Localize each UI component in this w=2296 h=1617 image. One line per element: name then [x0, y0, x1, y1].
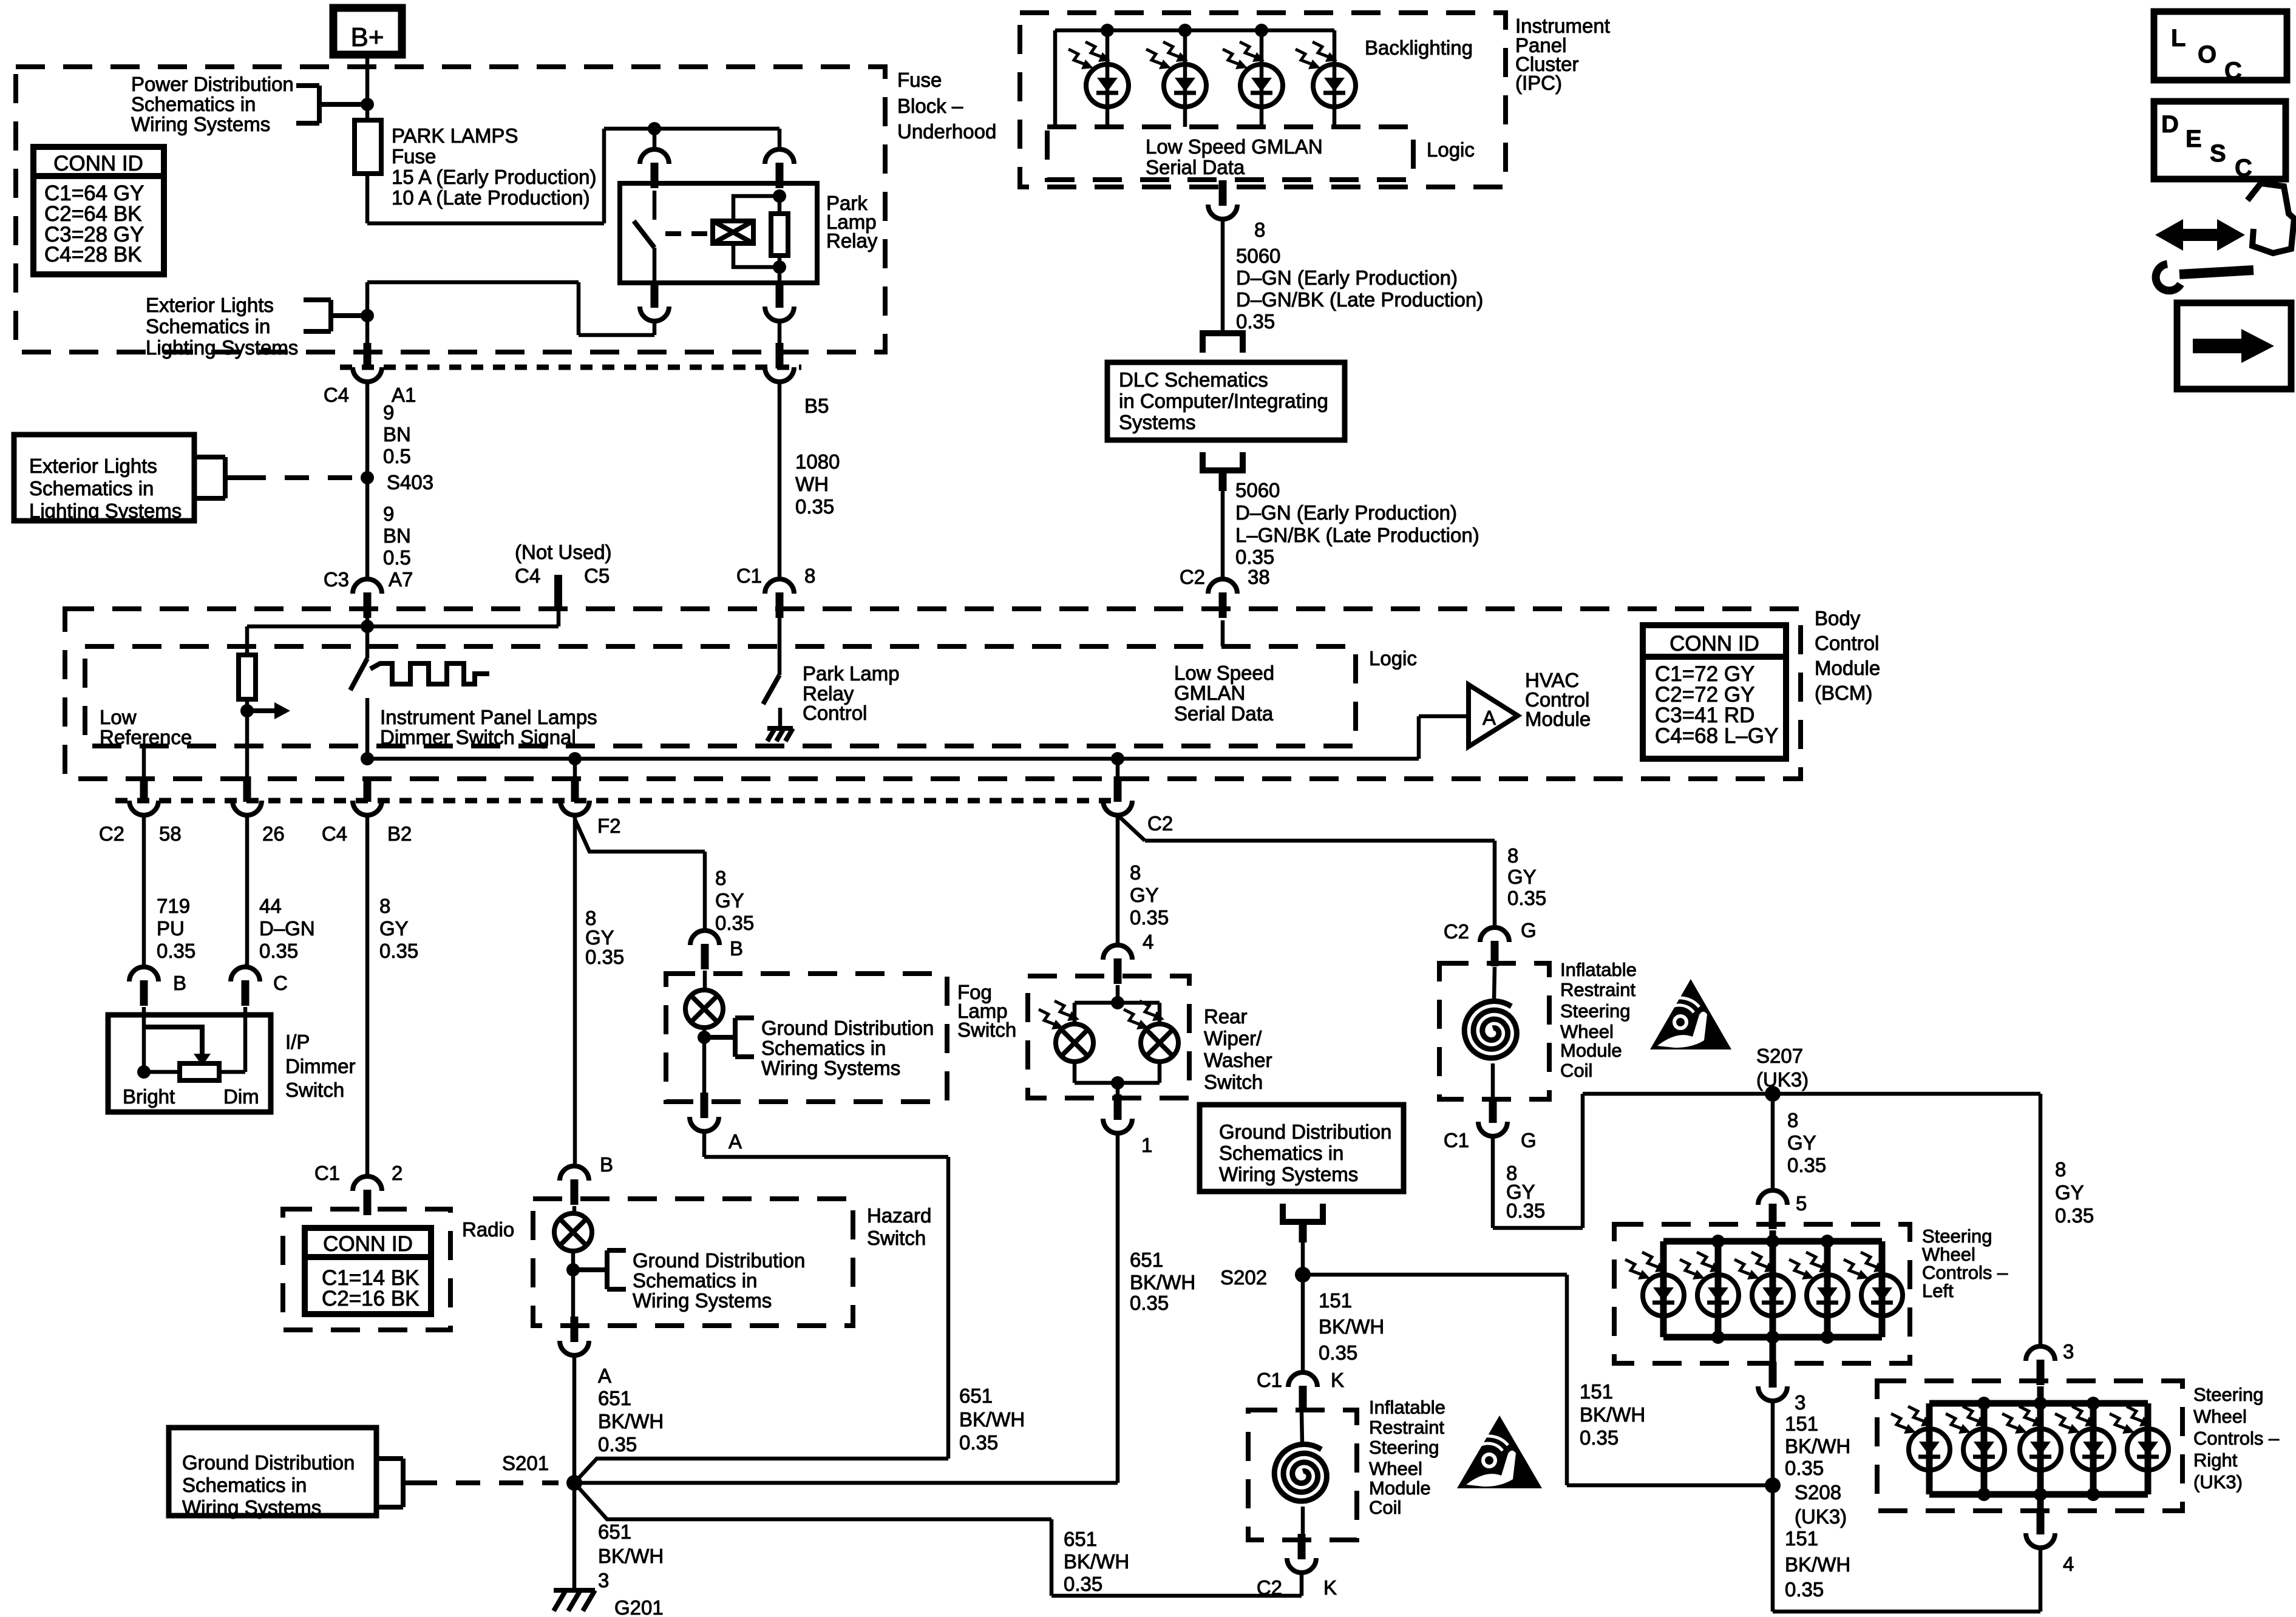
warning triangle airbag upper — [1650, 979, 1731, 1049]
wire hazard A to S201 — [572, 1355, 577, 1483]
svg-text:Steering: Steering — [1560, 1000, 1630, 1022]
wire DLC to BCM — [1221, 491, 1225, 579]
svg-text:C5: C5 — [584, 564, 610, 587]
warning triangle airbag lower — [1457, 1415, 1542, 1488]
svg-text:Relay: Relay — [826, 229, 878, 252]
connector dimmer C — [231, 967, 260, 981]
dotted connector face below fuse block — [340, 365, 801, 370]
svg-text:15 A (Early Production): 15 A (Early Production) — [392, 166, 597, 188]
connector table CONN ID fuse block — [33, 147, 164, 274]
svg-text:Fuse: Fuse — [897, 69, 942, 91]
wire relay out left — [653, 321, 657, 335]
svg-text:C1: C1 — [314, 1162, 340, 1184]
svg-text:Ground Distribution: Ground Distribution — [633, 1249, 805, 1272]
hazard switch dashed box — [533, 1199, 853, 1326]
svg-text:BN: BN — [383, 524, 411, 547]
wire bus drop F2 — [573, 759, 577, 778]
bracket to S403 — [223, 457, 228, 498]
relay actuation dashes — [665, 231, 713, 236]
svg-text:Wiring Systems: Wiring Systems — [761, 1057, 900, 1079]
svg-text:Switch: Switch — [1204, 1071, 1263, 1093]
svg-text:9: 9 — [383, 503, 394, 525]
svg-text:719: 719 — [157, 895, 190, 917]
svg-text:Power Distribution: Power Distribution — [131, 73, 294, 95]
svg-text:Restraint: Restraint — [1560, 979, 1635, 1000]
svg-text:C2: C2 — [99, 822, 124, 845]
wire IPC to DLC — [1221, 219, 1225, 333]
svg-text:BK/WH: BK/WH — [598, 1410, 664, 1432]
svg-text:Module: Module — [1525, 708, 1591, 730]
LED backlight 1 — [1106, 30, 1110, 127]
svg-text:Exterior Lights: Exterior Lights — [146, 294, 274, 316]
wire S207 to SWC right — [2039, 1094, 2043, 1345]
svg-text:0.35: 0.35 — [795, 495, 834, 518]
node splice S403 — [361, 471, 374, 484]
svg-text:S202: S202 — [1220, 1266, 1267, 1289]
wire C2 to wiper 4 — [1116, 815, 1120, 945]
relay switch lower wire — [653, 248, 657, 283]
svg-text:C: C — [2224, 58, 2242, 84]
wire fuse to relay top — [367, 222, 604, 226]
connector C2 GMLAN out — [1114, 776, 1122, 802]
BCM dimmer switch blade — [350, 659, 367, 690]
svg-text:0.5: 0.5 — [383, 546, 411, 569]
BCM internal bus — [367, 757, 1419, 761]
svg-text:Switch: Switch — [957, 1019, 1016, 1041]
wire S207 bus — [1583, 1092, 2040, 1096]
svg-text:(UK3): (UK3) — [1795, 1505, 1847, 1528]
svg-text:Radio: Radio — [462, 1218, 514, 1241]
wire S207 to SWC left — [1771, 1094, 1775, 1190]
node relay coil top — [773, 189, 786, 203]
coil spiral lower — [1274, 1444, 1326, 1501]
box DLC Schematics — [1107, 362, 1345, 440]
connector coil C1 G — [1489, 1097, 1497, 1123]
svg-text:651: 651 — [959, 1385, 993, 1407]
icon DESC box — [2154, 101, 2286, 179]
wire F2 branch to fog — [575, 819, 705, 852]
BCM relay control ground stub — [778, 708, 783, 727]
svg-text:Underhood: Underhood — [897, 120, 996, 143]
svg-text:0.35: 0.35 — [259, 940, 298, 962]
svg-text:S: S — [2210, 140, 2226, 167]
svg-text:Schematics in: Schematics in — [29, 477, 154, 500]
svg-text:BK/WH: BK/WH — [1580, 1403, 1645, 1426]
node splice S202 — [1295, 1267, 1311, 1283]
svg-text:5060: 5060 — [1235, 479, 1280, 501]
svg-text:3: 3 — [598, 1569, 609, 1592]
SWC left bottom bus — [1663, 1334, 1882, 1341]
wire S201 to ground — [572, 1483, 577, 1589]
svg-text:S207: S207 — [1756, 1045, 1803, 1067]
SWC right bus dots — [1977, 1397, 1991, 1410]
svg-text:5: 5 — [1796, 1192, 1807, 1215]
svg-text:Ground Distribution: Ground Distribution — [182, 1451, 355, 1474]
lamp hazard indicator — [554, 1213, 592, 1251]
svg-text:Module: Module — [1815, 657, 1880, 679]
wire hazard B — [560, 1166, 589, 1181]
svg-text:0.35: 0.35 — [598, 1433, 637, 1456]
svg-text:D–GN/BK (Late Production): D–GN/BK (Late Production) — [1236, 288, 1483, 311]
svg-text:8: 8 — [1507, 844, 1518, 867]
svg-text:I/P: I/P — [285, 1031, 310, 1053]
relay resistor — [778, 191, 782, 214]
svg-text:D–GN: D–GN — [259, 917, 315, 940]
connector C4 pin B2 — [364, 776, 372, 802]
ground G201 — [554, 1588, 595, 1593]
icon vehicle arrow — [2155, 219, 2245, 251]
svg-text:Fuse: Fuse — [392, 145, 436, 168]
connector IPC serial out — [1219, 180, 1227, 206]
IPC backlight bus — [1055, 29, 1334, 33]
svg-text:0.35: 0.35 — [715, 912, 754, 934]
svg-text:B+: B+ — [350, 22, 384, 52]
connector C2 pin 58 — [140, 776, 148, 802]
coil lower wire — [1302, 1412, 1302, 1443]
svg-text:0.35: 0.35 — [1507, 887, 1546, 909]
fuse block - underhood dashed box — [16, 67, 885, 352]
svg-text:GY: GY — [2055, 1181, 2084, 1204]
BCM dimmer squiggle — [370, 663, 489, 684]
svg-text:(IPC): (IPC) — [1515, 72, 1562, 94]
svg-text:WH: WH — [795, 473, 829, 495]
connector C3 pin A7 — [353, 579, 382, 594]
SWC right LEDs — [1926, 1403, 1933, 1494]
svg-text:38: 38 — [1248, 566, 1270, 588]
wire 26 to dimmer C — [245, 815, 250, 967]
dimmer potentiometer — [180, 1063, 219, 1080]
svg-text:0.5: 0.5 — [383, 445, 411, 467]
svg-text:4: 4 — [2063, 1553, 2074, 1575]
svg-text:A: A — [729, 1130, 742, 1153]
connector relay coil out — [776, 282, 784, 308]
radio dashed box — [283, 1209, 450, 1330]
svg-text:151: 151 — [1319, 1289, 1352, 1312]
dimmer B leg — [142, 1007, 146, 1072]
svg-text:0.35: 0.35 — [1580, 1426, 1618, 1449]
svg-text:Bright: Bright — [123, 1085, 175, 1108]
svg-text:C4=28 BK: C4=28 BK — [44, 243, 142, 266]
svg-text:0.35: 0.35 — [2055, 1204, 2094, 1227]
node dimmer signal junction — [361, 620, 374, 633]
svg-text:651: 651 — [1130, 1249, 1163, 1271]
node IPC bus dot 1 — [1101, 24, 1114, 37]
wire bus to HVAC — [1417, 716, 1421, 759]
fog lamp wire bottom — [702, 1028, 707, 1093]
svg-text:5060: 5060 — [1236, 245, 1280, 267]
svg-text:Schematics in: Schematics in — [131, 93, 256, 115]
steering wheel controls right dashed box — [1877, 1381, 2182, 1511]
svg-text:C4: C4 — [322, 822, 347, 845]
svg-text:Switch: Switch — [867, 1227, 926, 1249]
svg-text:10 A (Late Production): 10 A (Late Production) — [392, 186, 590, 209]
svg-text:Park Lamp: Park Lamp — [803, 662, 900, 685]
svg-text:Logic: Logic — [1427, 138, 1475, 161]
wire S201 to fog loop — [574, 1459, 948, 1483]
svg-text:0.35: 0.35 — [1319, 1341, 1357, 1364]
bracket hazard ground distribution — [605, 1250, 610, 1289]
svg-text:Steering: Steering — [1369, 1437, 1439, 1458]
svg-text:Restraint: Restraint — [1369, 1417, 1444, 1438]
wire wiper out — [1116, 1083, 1120, 1094]
svg-text:Wiring Systems: Wiring Systems — [131, 113, 270, 135]
BCM wiper arrow — [247, 708, 274, 713]
svg-text:0.35: 0.35 — [1235, 546, 1274, 568]
svg-text:C: C — [273, 972, 288, 994]
wire relay coil drop — [778, 129, 782, 149]
svg-text:F2: F2 — [597, 815, 621, 837]
box Exterior Lights schematics — [14, 435, 194, 521]
node relay coil bottom — [773, 260, 786, 274]
node fog ground junction — [698, 1031, 711, 1044]
svg-text:Coil: Coil — [1369, 1497, 1401, 1518]
connector SWC left 5 — [1758, 1190, 1787, 1205]
svg-text:1080: 1080 — [795, 450, 840, 473]
connector wiper 4 — [1103, 945, 1132, 960]
connector table CONN ID BCM — [1643, 625, 1786, 759]
svg-text:K: K — [1323, 1576, 1337, 1599]
connector fog A — [701, 1093, 708, 1118]
svg-text:C4: C4 — [324, 384, 349, 406]
box Ground Distribution middle — [1200, 1105, 1404, 1192]
connector table CONN ID radio — [305, 1228, 431, 1314]
svg-text:Hazard: Hazard — [867, 1204, 931, 1227]
svg-text:L: L — [2171, 25, 2186, 52]
svg-text:Wiring Systems: Wiring Systems — [1219, 1163, 1358, 1185]
svg-text:PU: PU — [157, 917, 185, 940]
svg-text:Schematics in: Schematics in — [182, 1474, 307, 1496]
node splice S208 — [1765, 1477, 1781, 1493]
relay switch contact wire — [653, 191, 657, 220]
wire S208 to SWC right 4 — [1771, 1485, 1775, 1612]
node relay feed junction — [648, 122, 661, 135]
wire coil to S207 — [1491, 1136, 1495, 1228]
svg-text:Systems: Systems — [1119, 411, 1196, 433]
svg-text:151: 151 — [1785, 1527, 1818, 1550]
svg-text:Backlighting: Backlighting — [1365, 36, 1473, 59]
wire SWC left to S208 — [1771, 1401, 1775, 1485]
svg-text:651: 651 — [598, 1387, 631, 1409]
wire C3 into BCM — [365, 611, 370, 626]
svg-text:2: 2 — [392, 1162, 402, 1184]
svg-text:C: C — [2235, 155, 2252, 181]
svg-text:BK/WH: BK/WH — [1785, 1435, 1850, 1457]
svg-text:B5: B5 — [804, 395, 829, 417]
svg-text:Wiper/: Wiper/ — [1204, 1027, 1262, 1049]
svg-text:D–GN (Early Production): D–GN (Early Production) — [1236, 266, 1458, 289]
svg-text:C1: C1 — [736, 564, 762, 587]
svg-text:Low Speed: Low Speed — [1174, 662, 1274, 684]
svg-text:Control: Control — [1815, 632, 1879, 654]
LED backlight 2 — [1183, 30, 1187, 127]
BCM dimmer switch wire — [365, 626, 370, 659]
svg-text:0.35: 0.35 — [157, 940, 195, 962]
svg-text:K: K — [1331, 1369, 1344, 1391]
svg-text:C4=68 L–GY: C4=68 L–GY — [1655, 724, 1778, 748]
inflatable restraint coil lower dashed box — [1248, 1410, 1357, 1540]
svg-text:8: 8 — [1254, 219, 1265, 241]
bracket fog ground distribution — [733, 1018, 738, 1057]
icon LOC box — [2154, 12, 2287, 80]
node bus dot B2 — [361, 752, 374, 765]
hazard lamp wire bottom — [571, 1251, 576, 1317]
BCM resistor low reference — [245, 626, 250, 655]
connector coil C2 G — [1480, 927, 1509, 942]
svg-text:8: 8 — [715, 867, 726, 889]
svg-text:0.35: 0.35 — [1130, 906, 1169, 929]
wire C5 into BCM — [557, 610, 561, 626]
svg-text:Exterior Lights: Exterior Lights — [29, 455, 157, 477]
connector SWC left 3 — [1769, 1362, 1777, 1388]
svg-text:CONN ID: CONN ID — [323, 1232, 413, 1256]
svg-text:Controls –: Controls – — [2193, 1428, 2280, 1449]
hazard lamp wire top — [572, 1206, 577, 1213]
connector F2 — [571, 776, 579, 802]
svg-text:Ground Distribution: Ground Distribution — [1219, 1120, 1391, 1143]
bracket S201 ground distribution — [401, 1459, 406, 1507]
svg-text:BN: BN — [383, 423, 411, 446]
svg-text:(UK3): (UK3) — [2193, 1471, 2243, 1493]
SWC right bottom bus — [1929, 1491, 2148, 1498]
SWC left bus dots — [1711, 1235, 1725, 1248]
wiper lamp bus bottom — [1075, 1081, 1160, 1085]
svg-text:GY: GY — [1130, 884, 1159, 906]
fuse F PARK LAMPS — [355, 120, 381, 174]
power feed B+ symbol — [333, 8, 402, 55]
connector pin 26 — [243, 776, 251, 802]
svg-text:Wheel: Wheel — [1369, 1458, 1422, 1479]
svg-text:0.35: 0.35 — [1785, 1457, 1824, 1479]
svg-text:0.35: 0.35 — [1787, 1154, 1826, 1176]
dimmer wiper loop — [144, 1027, 202, 1054]
svg-text:0.35: 0.35 — [1785, 1578, 1824, 1601]
icon wrench — [2179, 270, 2254, 274]
connector radio C1 2 — [353, 1176, 382, 1191]
wire S201 to wiper return — [574, 1481, 1118, 1485]
svg-text:(BCM): (BCM) — [1815, 682, 1872, 704]
svg-text:44: 44 — [259, 895, 282, 917]
svg-text:C1: C1 — [1257, 1369, 1282, 1391]
svg-text:A: A — [598, 1364, 611, 1387]
svg-text:Inflatable: Inflatable — [1560, 959, 1637, 980]
svg-text:Dimmer Switch Signal: Dimmer Switch Signal — [380, 726, 576, 748]
IP dimmer switch box — [108, 1015, 271, 1112]
node bus dot C2 — [1111, 752, 1124, 765]
svg-text:GMLAN: GMLAN — [1174, 682, 1245, 704]
svg-text:S208: S208 — [1795, 1481, 1841, 1503]
svg-text:Left: Left — [1922, 1280, 1954, 1301]
svg-text:C4: C4 — [515, 564, 540, 587]
svg-text:4: 4 — [1143, 931, 1153, 953]
svg-text:Right: Right — [2193, 1449, 2238, 1471]
lamp fog indicator — [685, 990, 723, 1028]
wiper lamp bus top — [1116, 985, 1120, 1003]
svg-text:D–GN (Early Production): D–GN (Early Production) — [1235, 501, 1457, 524]
node exterior lights junction — [361, 309, 374, 322]
node dimmer bright junction — [137, 1065, 151, 1079]
svg-text:Control: Control — [803, 702, 867, 724]
LED backlight 4 — [1333, 30, 1337, 127]
svg-text:G: G — [1521, 919, 1537, 941]
svg-text:(UK3): (UK3) — [1756, 1068, 1809, 1091]
connector pair below DLC — [1203, 452, 1243, 470]
svg-text:Inflatable: Inflatable — [1369, 1397, 1445, 1418]
BCM relay control blade — [763, 675, 779, 704]
svg-text:151: 151 — [1785, 1412, 1818, 1435]
svg-text:Coil: Coil — [1560, 1060, 1592, 1081]
svg-text:B: B — [600, 1153, 613, 1176]
connector hazard A — [571, 1317, 579, 1342]
svg-text:C3: C3 — [324, 568, 349, 591]
svg-text:Schematics in: Schematics in — [761, 1037, 886, 1059]
svg-text:C1: C1 — [1444, 1129, 1469, 1151]
wire F2 down to hazard — [573, 815, 577, 1164]
connector relay coil pin — [765, 149, 794, 164]
instrument panel cluster IPC dashed box — [1020, 13, 1506, 187]
wire B5 to C1 — [778, 382, 782, 579]
svg-text:D: D — [2161, 111, 2179, 138]
svg-text:0.35: 0.35 — [1130, 1292, 1169, 1314]
svg-text:Washer: Washer — [1204, 1049, 1272, 1071]
svg-text:3: 3 — [1795, 1391, 1805, 1414]
svg-text:BK/WH: BK/WH — [598, 1545, 664, 1567]
svg-text:8: 8 — [804, 564, 815, 587]
svg-text:C2: C2 — [1147, 812, 1173, 835]
connector C4 pin A1 — [364, 343, 372, 368]
fog lamp switch dashed box — [666, 974, 947, 1102]
svg-text:PARK LAMPS: PARK LAMPS — [392, 124, 518, 147]
connector SWC right 3 — [2026, 1346, 2055, 1361]
wire dimmer switch out — [365, 698, 370, 759]
svg-text:S201: S201 — [502, 1452, 549, 1474]
svg-text:Serial Data: Serial Data — [1146, 156, 1245, 178]
node IPC bus dot 2 — [1178, 24, 1192, 37]
svg-text:Logic: Logic — [1369, 647, 1417, 670]
svg-text:Wiring Systems: Wiring Systems — [633, 1289, 772, 1312]
svg-text:Dimmer: Dimmer — [285, 1055, 355, 1077]
svg-text:GY: GY — [379, 917, 409, 940]
svg-text:GY: GY — [1787, 1131, 1816, 1154]
svg-text:S403: S403 — [387, 471, 433, 493]
svg-text:0.35: 0.35 — [585, 946, 624, 968]
svg-text:Body: Body — [1815, 607, 1861, 629]
svg-text:Steering: Steering — [2193, 1384, 2263, 1405]
relay coil box — [713, 221, 753, 243]
dimmer C leg — [243, 1007, 248, 1072]
wire bus drop C2 — [1116, 759, 1120, 778]
svg-text:651: 651 — [598, 1520, 631, 1543]
svg-text:A1: A1 — [392, 384, 416, 406]
svg-text:CONN ID: CONN ID — [53, 152, 143, 175]
wire A1 to C3 — [365, 382, 370, 579]
svg-text:in Computer/Integrating: in Computer/Integrating — [1119, 390, 1328, 412]
icon arrow box — [2177, 303, 2291, 389]
svg-text:B: B — [730, 937, 743, 960]
LED backlight 3 — [1260, 30, 1264, 127]
connector coil lower C2 K — [1298, 1534, 1306, 1559]
svg-text:(Not Used): (Not Used) — [515, 541, 612, 563]
svg-text:Schematics in: Schematics in — [1219, 1142, 1343, 1164]
wire 26 jog — [245, 964, 247, 967]
svg-text:A: A — [1483, 707, 1496, 729]
svg-text:Schematics in: Schematics in — [146, 315, 270, 337]
SWC left LEDs — [1660, 1241, 1667, 1337]
steering wheel controls left dashed box — [1614, 1224, 1910, 1363]
node wiper bus top — [1111, 996, 1124, 1009]
node splice S201 — [566, 1475, 582, 1491]
wire relay out right — [778, 321, 782, 344]
relay K park lamp relay box — [620, 183, 817, 283]
